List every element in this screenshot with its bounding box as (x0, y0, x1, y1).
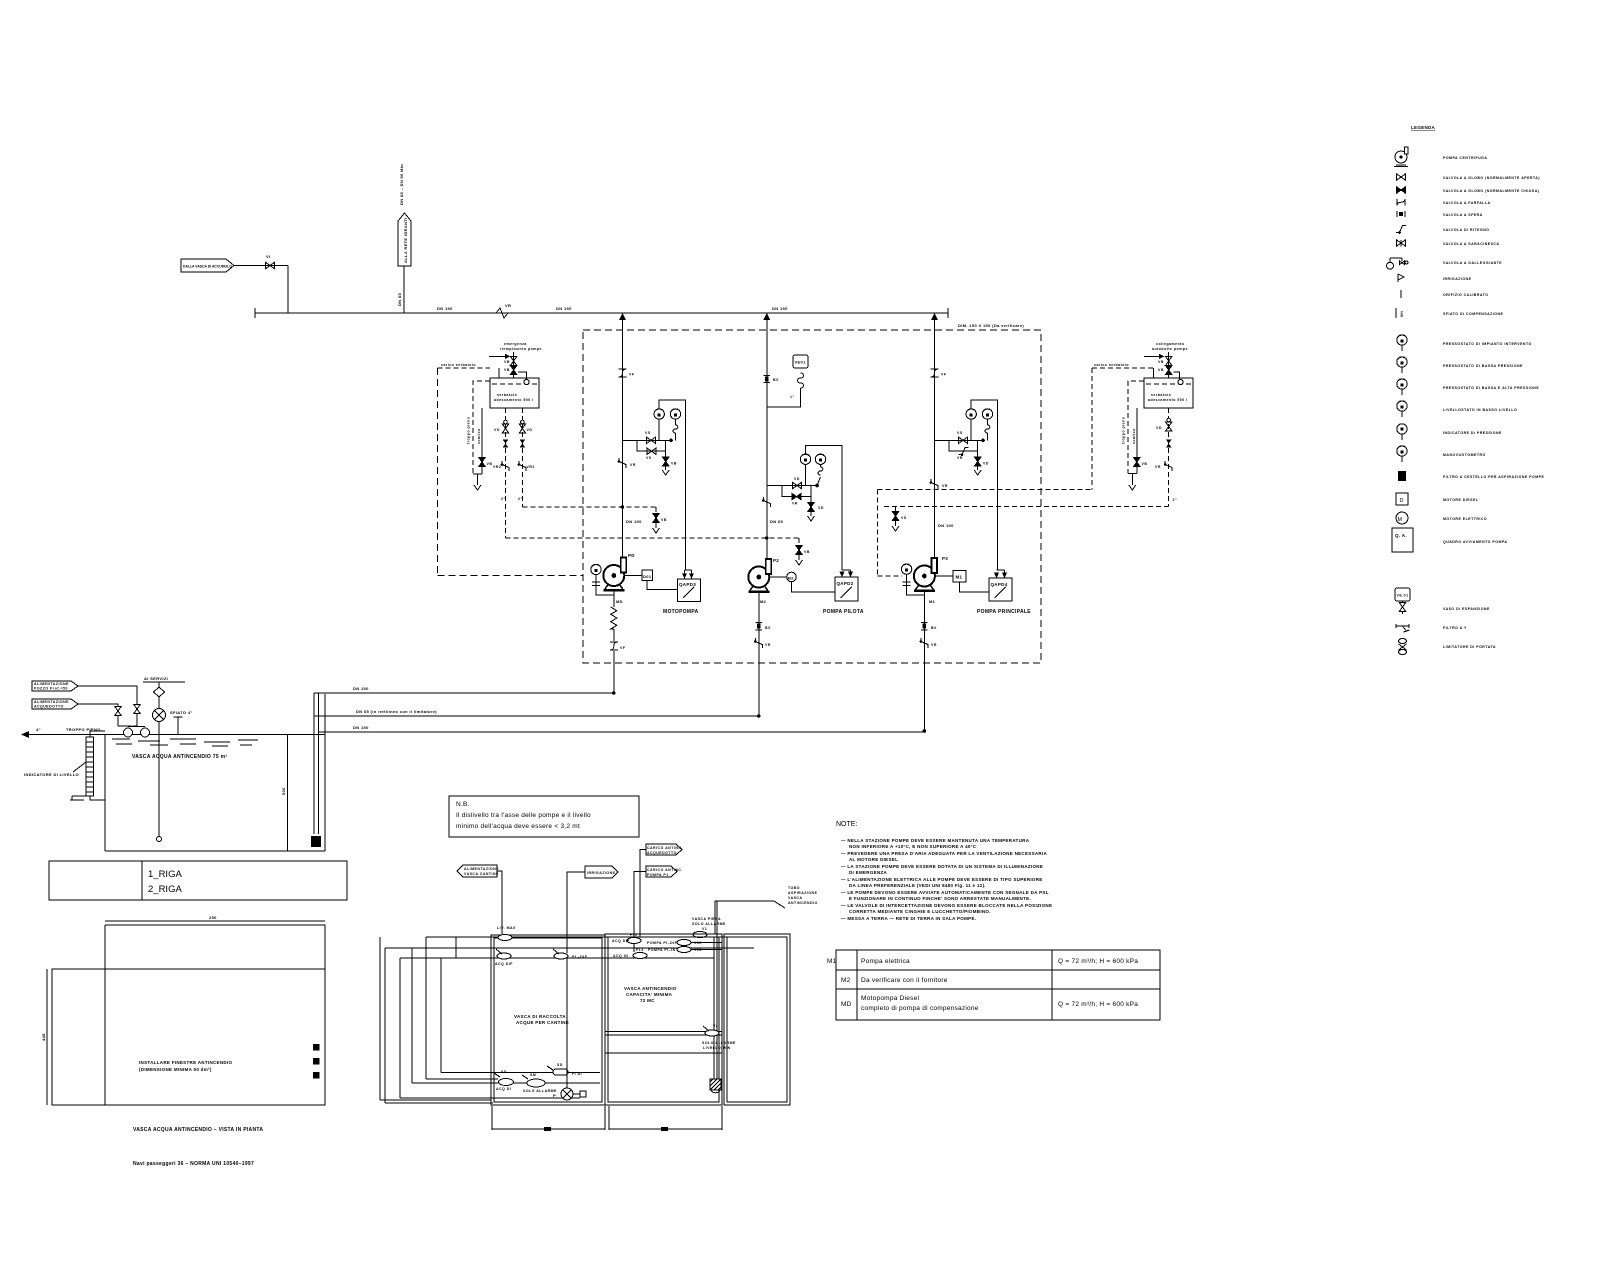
sensor V4 SOLO ALLARME LIVELLO MIN (702, 1024, 736, 1050)
svg-text:PI –DIF: PI –DIF (572, 955, 588, 959)
left priming tank: serbatoio adescamento 500 l (490, 372, 539, 408)
wire: pump P2 to M2 (769, 576, 786, 578)
svg-text:POMPA PRINCIPALE: POMPA PRINCIPALE (977, 609, 1031, 615)
svg-text:POMPA CENTRIFUGA: POMPA CENTRIFUGA (1443, 156, 1487, 160)
svg-text:scarico: scarico (477, 428, 481, 444)
svg-text:scarico: scarico (1132, 428, 1136, 444)
svg-text:DALLA VASCA DI ACCUMULO: DALLA VASCA DI ACCUMULO (183, 265, 232, 269)
svg-text:— LE VALVOLE DI INTERCETTAZION: — LE VALVOLE DI INTERCETTAZIONE DEVONO E… (841, 903, 1052, 908)
svg-text:VB: VB (1158, 360, 1164, 364)
svg-text:— L'ALIMENTAZIONE ELETTRICA AL: — L'ALIMENTAZIONE ELETTRICA ALLE POMPE D… (841, 877, 1043, 882)
valves VB VB on left tank fill (500, 342, 542, 378)
svg-text:SD: SD (557, 1063, 563, 1067)
valves VB VB on right tank fill (1152, 342, 1188, 378)
pump PD (603, 558, 626, 592)
check valve VR on P3 suction (920, 638, 937, 648)
wire: PD sensing line to QAPD3 (659, 400, 691, 575)
legend manovuotometro (1397, 446, 1486, 462)
hatched suction strainer (710, 1079, 721, 1093)
wire: P3 tee bypass (949, 440, 978, 451)
left feed pipe stack verticals (380, 937, 456, 1103)
svg-text:VALVOLA A GLOBO (NORMALMENTE C: VALVOLA A GLOBO (NORMALMENTE CHIUSA) (1443, 189, 1539, 193)
svg-text:DN 150: DN 150 (353, 686, 369, 691)
svg-text:VASCA: VASCA (788, 896, 803, 900)
right priming tank: serbatoio adescamento 500 l (1144, 372, 1193, 408)
svg-text:V4: V4 (713, 1024, 718, 1028)
svg-text:VS: VS (645, 431, 651, 435)
svg-text:POMPA P1: POMPA P1 (647, 873, 669, 877)
valve on PD suction (610, 642, 626, 650)
svg-text:LIVELLO MIN: LIVELLO MIN (703, 1046, 731, 1050)
svg-text:ACQ DIF: ACQ DIF (495, 962, 513, 966)
svg-text:— LA STAZIONE POMPE DEVE ESSER: — LA STAZIONE POMPE DEVE ESSERE DOTATA D… (841, 864, 1043, 869)
expansion vessel VE01 (767, 355, 808, 407)
svg-text:PD: PD (628, 553, 635, 558)
svg-text:— PREVEDERE UNA PRESA D'ARIA A: — PREVEDERE UNA PRESA D'ARIA ADEGUATA PE… (841, 851, 1048, 856)
legend compensation vent (1396, 308, 1504, 318)
legend calibrated orifice (1401, 290, 1488, 298)
svg-text:DN 150: DN 150 (772, 306, 788, 311)
svg-text:INSTALLARE FINESTRE ANTINCENDI: INSTALLARE FINESTRE ANTINCENDIO (139, 1060, 232, 1065)
wire: PD gauge tee (622, 439, 673, 441)
check valve VR on P3 riser (930, 479, 948, 489)
svg-text:AI SERVIZI: AI SERVIZI (144, 676, 168, 681)
svg-text:IRRIGAZIONE: IRRIGAZIONE (587, 871, 616, 875)
svg-text:VR: VR (942, 484, 948, 488)
svg-text:V1: V1 (702, 927, 707, 931)
svg-text:VR: VR (1155, 465, 1161, 469)
svg-text:SD: SD (501, 1070, 507, 1074)
svg-text:DN 150: DN 150 (556, 306, 572, 311)
svg-text:VASCA CANTINE: VASCA CANTINE (464, 872, 499, 876)
svg-text:NON INFERIORE A +10°C, E NON S: NON INFERIORE A +10°C, E NON SUPERIORE A… (849, 844, 977, 849)
svg-text:ORIFIZIO CALIBRATO: ORIFIZIO CALIBRATO (1443, 293, 1488, 297)
control panel QAPD4 (989, 578, 1012, 601)
check valve VR on P3 bypass (957, 448, 969, 460)
svg-text:VE01: VE01 (795, 360, 807, 365)
svg-text:VR: VR (931, 643, 937, 647)
wire: instrument stems P3 (970, 419, 972, 440)
svg-text:M1: M1 (956, 575, 963, 580)
svg-text:MOTORE ELETTRICO: MOTORE ELETTRICO (1443, 517, 1487, 521)
svg-text:DN 100: DN 100 (626, 519, 642, 524)
svg-text:VALVOLA A GLOBO (NORMALMENTE A: VALVOLA A GLOBO (NORMALMENTE APERTA) (1443, 176, 1540, 180)
svg-text:Q = 72 m³/h; H = 600 kPa: Q = 72 m³/h; H = 600 kPa (1058, 958, 1138, 965)
svg-text:serbatoio: serbatoio (1151, 393, 1171, 397)
svg-text:M: M (1398, 517, 1403, 523)
svg-text:CARICO ANTINC.: CARICO ANTINC. (647, 846, 683, 850)
valve VS on P3 tee (957, 431, 968, 443)
pump P3 (914, 558, 937, 592)
wire: pump P3 to M1 (935, 575, 953, 577)
svg-text:VF: VF (629, 373, 635, 377)
svg-text:— LE POMPE DEVONO ESSERE AVVIA: — LE POMPE DEVONO ESSERE AVVIATE AUTOMAT… (841, 890, 1049, 895)
sensor SOLO ALLARME (left tank) (522, 1073, 557, 1093)
wire: D01 to QAPD3 (647, 581, 677, 590)
legend check valve (1396, 226, 1489, 234)
legend vaso di espansione (1395, 588, 1490, 614)
svg-text:SFIATO DI COMPENSAZIONE: SFIATO DI COMPENSAZIONE (1443, 312, 1504, 316)
svg-text:CAPACITA' MINIMA: CAPACITA' MINIMA (626, 992, 673, 997)
legend livellostato (1397, 401, 1517, 417)
wire: drain outlet arrow (473, 474, 482, 485)
drain VB+Y at end of y507 line (655, 507, 657, 514)
vent SFIATO 4" (170, 710, 193, 735)
drain valve VD below P2 tee (808, 497, 824, 521)
svg-text:CORRETTA MEDIANTE CINGHIE E LU: CORRETTA MEDIANTE CINGHIE E LUCCHETTO/PI… (849, 909, 991, 914)
wire: P2 discharge riser (766, 313, 768, 559)
valve VD on P2 tee (793, 477, 802, 489)
drain VB+Y at end of y538 line (798, 538, 800, 546)
svg-text:VI: VI (266, 254, 270, 259)
sensor ACQ DIF (495, 949, 513, 966)
svg-text:CARICO ANTINC.: CARICO ANTINC. (647, 868, 683, 872)
float valve 1 on tank inlet (78, 686, 140, 737)
svg-text:SM: SM (530, 1073, 536, 1077)
legend limitatore di portata (1399, 639, 1496, 655)
drain valve VB below PD tee (662, 440, 677, 475)
legend butterfly valve (1397, 199, 1491, 206)
node: source flag POZZO 1 (32, 681, 78, 691)
svg-text:Motopompa Diesel: Motopompa Diesel (861, 995, 919, 1002)
legend pressostato bassa e alta (1397, 379, 1540, 395)
wire: PD suction with flexible joint (613, 592, 615, 694)
svg-text:1_RIGA: 1_RIGA (148, 869, 182, 880)
svg-text:N.B.: N.B. (456, 801, 470, 808)
svg-text:MD: MD (616, 599, 623, 604)
dimension 445 (41, 969, 47, 1105)
legend gate valve (1397, 240, 1500, 247)
water surface waves (112, 739, 258, 746)
svg-text:VASO DI ESPANSIONE: VASO DI ESPANSIONE (1443, 607, 1490, 611)
level sensor LIV.MAX (497, 926, 516, 941)
tank VASCA ACQUA ANTINCENDIO (105, 694, 325, 851)
svg-text:VB: VB (504, 368, 510, 372)
wire: feed line from flag (234, 266, 288, 314)
legend filtro a Y (1396, 624, 1467, 632)
node: flag CARICO ANTINC. ACQUEDOTTO (640, 844, 683, 937)
check valve VR on P2 suction (754, 638, 771, 648)
node: flag CARICO ANTINC. POMPA P1 (634, 866, 683, 952)
svg-text:VALVOLA A SFERA: VALVOLA A SFERA (1443, 213, 1483, 217)
svg-text:VALVOLA A GALLEGGIANTE: VALVOLA A GALLEGGIANTE (1443, 261, 1502, 265)
svg-text:VASCA ACQUA ANTINCENDIO – VIST: VASCA ACQUA ANTINCENDIO – VISTA IN PIANT… (133, 1127, 263, 1133)
wire: dashed priming y489.6 (877, 489, 1092, 491)
legend ball valve (1397, 211, 1483, 217)
control panel QAPD3 (678, 579, 701, 602)
svg-text:E FUNZIONARE IN CONTINUO FINCH: E FUNZIONARE IN CONTINUO FINCHE' SONO AR… (849, 896, 1031, 901)
svg-text:collegamento: collegamento (1156, 342, 1185, 346)
wire: instrument stems PD (658, 419, 660, 440)
svg-text:MN: MN (1400, 311, 1404, 317)
svg-text:PRESSOSTATO DI IMPIANTO INTERV: PRESSOSTATO DI IMPIANTO INTERVENTO (1443, 342, 1532, 346)
left feed pipe stack horizontals (bottom) (380, 1073, 600, 1104)
svg-text:V5: V5 (646, 456, 651, 460)
svg-text:ALIMENTAZIONE: ALIMENTAZIONE (464, 867, 499, 871)
svg-text:SOLO ALLARME: SOLO ALLARME (702, 1041, 736, 1045)
svg-text:(DIMENSIONE MINIMA 50 dm²): (DIMENSIONE MINIMA 50 dm²) (139, 1067, 212, 1072)
node: AI SERVIZI branch (143, 676, 185, 842)
right compartment walls (724, 934, 790, 1105)
wire: P3 discharge riser (933, 313, 935, 558)
svg-text:DN 150: DN 150 (353, 725, 369, 730)
svg-text:DI EMERGENZA: DI EMERGENZA (849, 870, 888, 875)
junction arrows on header (619, 313, 626, 320)
svg-text:SOLO ALLARME: SOLO ALLARME (692, 922, 726, 926)
svg-text:QAPD2: QAPD2 (837, 581, 854, 586)
wire: P3 suction (923, 592, 925, 732)
svg-text:VR: VR (957, 456, 963, 460)
foot strainer filter (311, 836, 321, 847)
svg-text:VS: VS (957, 431, 963, 435)
valve BV on P2 riser (764, 375, 780, 382)
svg-text:SFIATO 4": SFIATO 4" (170, 710, 193, 715)
wire: sub-box dashed left edge to P3 gauge (877, 490, 902, 576)
svg-text:SOLO ALLARME: SOLO ALLARME (523, 1089, 557, 1093)
wire: M2 to QAPD2 (792, 582, 836, 592)
left feed pipe stack horizontals (top) (385, 937, 782, 958)
svg-text:— MESSA A TERRA — RETE DI TERR: — MESSA A TERRA — RETE DI TERRA IN SALA … (841, 916, 976, 921)
svg-text:riempimento pompe: riempimento pompe (500, 347, 542, 351)
svg-text:VR: VR (505, 303, 511, 308)
svg-text:— NELLA STAZIONE POMPE DEVE ES: — NELLA STAZIONE POMPE DEVE ESSERE MANTE… (841, 838, 1030, 843)
legend filtro a cestello (1398, 471, 1544, 481)
pressure switch (P2) (800, 454, 810, 464)
node: source flag DALLA VASCA (181, 259, 234, 272)
wire: P2 sensing line to QAPD2 (806, 446, 851, 576)
wire: suction line DN150 y732 (319, 731, 925, 733)
legend indicatore di pressione (1397, 424, 1502, 440)
svg-text:INDICATORE DI PRESSIONE: INDICATORE DI PRESSIONE (1443, 431, 1502, 435)
motor D01 box (642, 570, 653, 581)
svg-text:ACQUEDOTTO: ACQUEDOTTO (34, 705, 64, 709)
svg-text:M2: M2 (788, 576, 795, 581)
svg-text:INDICATORE DI LIVELLO: INDICATORE DI LIVELLO (24, 772, 79, 777)
check valve VR on P2 bypass (792, 493, 801, 505)
svg-text:MD: MD (841, 1001, 852, 1008)
svg-text:FI DI: FI DI (572, 1072, 582, 1076)
svg-text:LEGENDA: LEGENDA (1411, 125, 1436, 130)
wire: suction line DN65 y716 (314, 715, 759, 717)
svg-text:M1: M1 (827, 958, 837, 965)
motor M1 box (953, 571, 966, 583)
svg-text:minimo dell'acqua deve essere: minimo dell'acqua deve essere < 3,2 mt (456, 823, 580, 830)
svg-text:LIMITATORE DI PORTATA: LIMITATORE DI PORTATA (1443, 645, 1496, 649)
wire: troppo pieno overflow line (21, 727, 105, 738)
sensor FI DI (547, 1063, 582, 1076)
svg-text:AL MOTORE DIESEL: AL MOTORE DIESEL (849, 857, 898, 862)
svg-text:VALVOLA DI RITEGNO: VALVOLA DI RITEGNO (1443, 228, 1489, 232)
svg-text:1": 1" (790, 395, 795, 399)
svg-text:DIM. 150 X 150 (Da verificare): DIM. 150 X 150 (Da verificare) (958, 323, 1024, 328)
wire: big box bottom dashed extension (438, 574, 584, 576)
svg-text:LIV. MAX: LIV. MAX (497, 926, 516, 930)
node: flag IRRIGAZIONE (567, 866, 618, 953)
svg-text:POZZO Prof.=50: POZZO Prof.=50 (34, 687, 68, 691)
svg-text:VB: VB (1142, 462, 1148, 466)
svg-text:DA LINEA PREFERENZIALE (VEDI U: DA LINEA PREFERENZIALE (VEDI UNI 8480 Fi… (849, 883, 986, 888)
node: source flag POZZO 2 (32, 699, 78, 709)
svg-text:QAPD3: QAPD3 (679, 582, 696, 587)
compound gauge on P3 suction (901, 564, 924, 595)
wire: main discharge header DN150 (255, 308, 948, 318)
svg-text:VASCA ACQUA ANTINCENDIO 75 m³: VASCA ACQUA ANTINCENDIO 75 m³ (132, 754, 227, 760)
svg-text:carico serbatoio: carico serbatoio (1094, 363, 1129, 367)
wire: M1 to QAPD4 (960, 582, 990, 592)
drain valve VD below P3 tee (974, 440, 989, 475)
sensor PI-DIF (553, 949, 588, 959)
svg-text:ACQ DIF: ACQ DIF (612, 939, 630, 943)
svg-text:VB: VB (487, 462, 493, 466)
svg-text:ALIMENTAZIONE: ALIMENTAZIONE (34, 700, 69, 704)
vacuum gauge on PD suction (591, 564, 614, 595)
svg-text:Il dislivello tra l'asse delle: Il dislivello tra l'asse delle pompe e i… (456, 812, 591, 819)
svg-text:2": 2" (1173, 498, 1178, 502)
check valve VR on P2 riser (762, 497, 770, 507)
svg-text:VB: VB (1158, 368, 1164, 372)
legend globe valve NC (1397, 187, 1540, 193)
valve BV on P2 suction (756, 623, 772, 631)
wire: carico serbatoio dashed (right) (1092, 367, 1154, 369)
valve BV on P3 suction (921, 623, 937, 631)
svg-text:LIVELLOSTATO IN BASSO LIVELLO: LIVELLOSTATO IN BASSO LIVELLO (1443, 408, 1517, 412)
sensor ACQ DI (494, 1070, 514, 1091)
svg-text:DN 150: DN 150 (437, 306, 453, 311)
svg-text:DN 65: DN 65 (770, 519, 784, 524)
svg-text:Q. A.: Q. A. (1395, 533, 1407, 538)
svg-text:VD: VD (494, 428, 500, 432)
tank walls: VASCA ANTINCENDIO (right) (605, 934, 722, 1105)
wire: P3 sensing line to QAPD4 (971, 400, 1004, 575)
right tank overflow troppo pieno (1128, 381, 1144, 474)
valve VB on left drain (479, 458, 485, 467)
svg-text:troppo pieno: troppo pieno (1122, 417, 1126, 444)
svg-text:VR: VR (765, 643, 771, 647)
legend pressostato impianto (1397, 335, 1532, 351)
legend pennant (1398, 274, 1472, 282)
svg-text:ACQUE PER CANTINE: ACQUE PER CANTINE (516, 1020, 569, 1025)
svg-text:F10: F10 (630, 933, 638, 937)
pressure switch (P2) right (815, 454, 825, 464)
wire: P2 suction (758, 592, 760, 717)
drain valve VS inside sub-box (892, 506, 907, 531)
wire: carico serbatoio dashed (left) (438, 367, 491, 369)
legend pump symbol (1394, 147, 1487, 167)
svg-text:Navi passeggeri 36 – NORMA UNI: Navi passeggeri 36 – NORMA UNI 10540–199… (133, 1161, 254, 1167)
wire: P2 tee bypass (782, 486, 811, 497)
wire: right drain outlet arrow (1128, 474, 1137, 486)
control panel QAPD2 (835, 577, 858, 601)
legend motore elettrico (1396, 512, 1487, 524)
bottom dimension lines (492, 1106, 722, 1131)
legend pressostato bassa (1397, 357, 1523, 373)
dimension 250 (105, 915, 325, 921)
svg-text:VD: VD (983, 462, 989, 466)
svg-text:4": 4" (36, 727, 41, 732)
svg-text:445: 445 (41, 1033, 46, 1041)
svg-text:Q = 72 m³/h; H = 600 kPa: Q = 72 m³/h; H = 600 kPa (1058, 1001, 1138, 1008)
wire: instrument stems P2 (805, 464, 807, 485)
svg-text:VR: VR (792, 502, 798, 506)
left tank outlet column 1 (to P2) (493, 408, 509, 538)
svg-text:250: 250 (209, 915, 217, 920)
wire: pump PD to D01 (624, 575, 642, 577)
svg-text:D01: D01 (643, 574, 652, 579)
legend globe valve NA (1397, 174, 1541, 180)
line break symbol VR (496, 303, 511, 318)
svg-text:72 MC: 72 MC (640, 998, 655, 1003)
tank walls: VASCA DI RACCOLTA (left) (491, 935, 605, 1105)
svg-text:F13: F13 (636, 948, 644, 952)
right tank drain scarico (1136, 408, 1138, 474)
pressure switch PSL (P3) (966, 409, 976, 419)
wire: P3 gauge tee (934, 439, 985, 441)
svg-text:BV: BV (773, 378, 779, 382)
windows squares (313, 1044, 320, 1051)
sensors right tank: ACQ DIF / POMPA PI rows (612, 933, 722, 959)
pump P2 (748, 559, 771, 593)
right tank outlet column (1155, 408, 1177, 506)
svg-text:M2: M2 (760, 599, 767, 604)
svg-text:carico serbatoio: carico serbatoio (441, 363, 476, 367)
level indicator column (70, 731, 105, 800)
svg-text:VD: VD (1156, 426, 1162, 430)
svg-text:adescamento 500 l: adescamento 500 l (1148, 398, 1188, 402)
svg-text:PRESSOSTATO DI BASSA PRESSIONE: PRESSOSTATO DI BASSA PRESSIONE (1443, 364, 1523, 368)
check valve VR on PD riser (618, 458, 636, 468)
svg-text:VF: VF (620, 646, 626, 650)
svg-text:MOTORE DIESEL: MOTORE DIESEL (1443, 498, 1479, 502)
svg-text:emergenza: emergenza (504, 342, 527, 346)
legend quadro avviamento (1392, 528, 1507, 552)
svg-text:VS: VS (901, 516, 907, 520)
svg-text:2_RIGA: 2_RIGA (148, 884, 182, 895)
svg-text:MOTOPOMPA: MOTOPOMPA (663, 609, 699, 615)
svg-text:P3: P3 (942, 556, 948, 561)
svg-text:DN 65: DN 65 (397, 292, 402, 306)
wire: dashed from carico down to sub-box (1091, 368, 1093, 490)
svg-text:BV: BV (931, 626, 937, 630)
svg-text:BV: BV (765, 626, 771, 630)
svg-text:D: D (1400, 498, 1404, 504)
wire: PD tee bypass (637, 440, 666, 451)
svg-text:VD: VD (794, 477, 800, 481)
wire: suction line DN150 y693 (314, 692, 614, 694)
svg-text:adescamento 500 l: adescamento 500 l (494, 398, 534, 402)
legend float valve (1387, 258, 1503, 269)
svg-text:ACQ DI: ACQ DI (496, 1087, 511, 1091)
svg-text:VF: VF (941, 373, 947, 377)
svg-text:M2: M2 (841, 977, 851, 984)
label TUBO note (715, 886, 818, 934)
svg-text:VB: VB (671, 462, 677, 466)
svg-text:ACQ IN: ACQ IN (613, 954, 628, 958)
svg-text:VR2: VR2 (493, 465, 501, 469)
wire: dashed loop left down (437, 368, 439, 575)
left tank overflow troppo pieno (473, 381, 490, 474)
svg-text:VR: VR (630, 463, 636, 467)
svg-text:VASCA ANTINCENDIO: VASCA ANTINCENDIO (624, 986, 677, 991)
internal divider right tank (605, 1032, 722, 1054)
pressure gauge PI (P3) (982, 409, 992, 419)
svg-text:POMPA PI–DIF: POMPA PI–DIF (647, 941, 678, 945)
svg-text:2": 2" (518, 497, 523, 501)
svg-text:ASPIRAZIONE: ASPIRAZIONE (788, 891, 818, 895)
svg-text:FILTRO A CESTELLO PER ASPIRAZI: FILTRO A CESTELLO PER ASPIRAZIONE POMPE (1443, 475, 1544, 479)
svg-text:NOTE:: NOTE: (836, 821, 857, 828)
drain pump symbol in left tank (553, 958, 586, 1100)
svg-text:Pompa elettrica: Pompa elettrica (861, 958, 910, 965)
